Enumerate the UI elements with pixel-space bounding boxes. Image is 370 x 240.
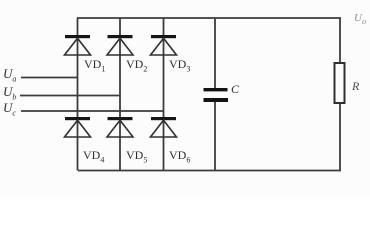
wire capacitor branch	[214, 18, 216, 171]
label VD4	[83, 148, 104, 164]
label VD3	[169, 57, 190, 73]
wire leg phase c (vertical)	[163, 18, 165, 171]
diode VD6	[151, 117, 177, 137]
label R	[352, 79, 359, 94]
label VD6	[169, 148, 190, 164]
label VD5	[126, 148, 147, 164]
label C	[231, 82, 239, 97]
label Ub	[3, 84, 16, 102]
wire leg phase a (vertical)	[77, 18, 79, 171]
label Ua	[3, 66, 16, 84]
resistor R body	[335, 63, 345, 103]
capacitor C plates	[204, 88, 229, 102]
diode VD3	[151, 35, 177, 55]
wire input Ua	[21, 77, 78, 79]
wire resistor branch	[339, 18, 341, 171]
diode VD2	[107, 35, 133, 55]
diode VD4	[65, 117, 91, 137]
wire input Ub	[20, 95, 120, 97]
wire top bus (+)	[77, 17, 341, 19]
wire leg phase b (vertical)	[119, 18, 121, 171]
diode VD1	[65, 35, 91, 55]
diode VD5	[107, 117, 133, 137]
label VD2	[126, 57, 147, 73]
label Uo	[354, 12, 366, 26]
wire bottom bus (-)	[78, 170, 341, 172]
label VD1	[84, 57, 105, 73]
label Uc	[3, 100, 16, 118]
wire input Uc	[21, 110, 164, 112]
